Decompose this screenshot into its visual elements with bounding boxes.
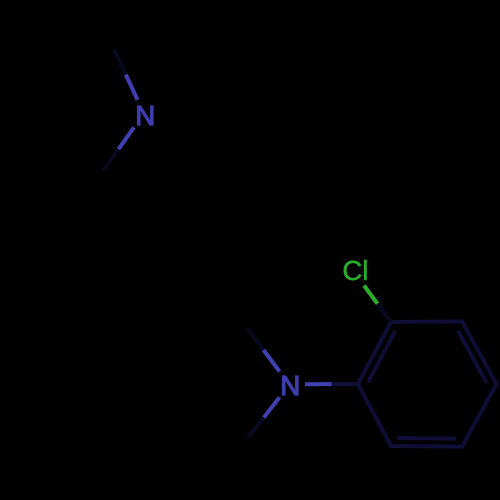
svg-text:N: N <box>280 370 300 401</box>
svg-text:Cl: Cl <box>342 255 368 286</box>
svg-text:N: N <box>135 100 155 131</box>
